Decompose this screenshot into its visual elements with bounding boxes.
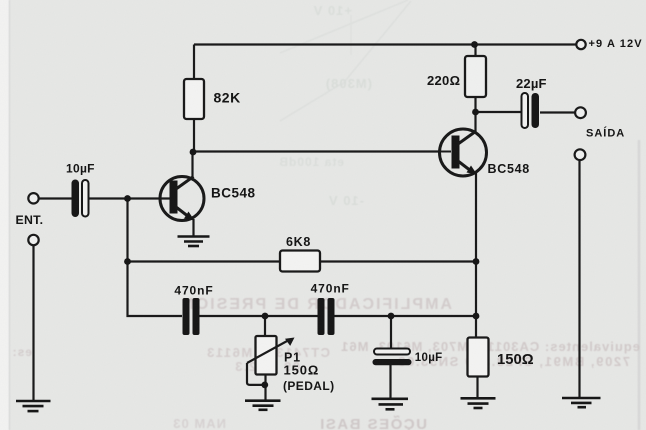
page crease	[9, 0, 11, 430]
capacitor 470nF no2 plates	[318, 298, 325, 335]
wire 10uF drop	[390, 316, 392, 350]
wire left vertical branch	[128, 199, 183, 317]
terminal +9V	[576, 40, 585, 49]
capacitor 10uF bottom: hollow plate	[374, 349, 410, 355]
wire Q1 emitter down	[192, 219, 194, 236]
wire 22uF to SAIDA	[540, 111, 575, 113]
node pot wiper	[261, 382, 268, 389]
wire 10uF to ground	[389, 365, 391, 398]
capacitor 10uF input: solid plate	[72, 180, 80, 218]
wire right ground column	[578, 160, 580, 398]
node 6K8 right	[473, 258, 480, 265]
capacitor 10uF bottom: solid plate	[373, 359, 412, 365]
ground Q1 emitter	[178, 237, 210, 247]
terminal output ground	[575, 149, 586, 160]
node cap1 cap2	[262, 313, 269, 320]
wire input terminal to cap	[38, 197, 73, 199]
bleedthrough vline	[350, 15, 352, 55]
node input base	[124, 195, 131, 202]
node 6K8 left	[124, 258, 131, 265]
right page-edge shade	[638, 140, 641, 430]
wire 82K bottom to node	[193, 119, 195, 152]
ground ENT	[16, 401, 51, 411]
resistor 150 ohm	[468, 338, 489, 377]
node emitter bottom	[473, 313, 480, 320]
capacitor 10uF input: hollow plate	[82, 180, 89, 217]
Q2 base wire into circle	[441, 151, 451, 153]
capacitor 470nF no1 plates	[183, 298, 190, 335]
node 10uF top	[388, 313, 395, 320]
wire 220R top	[474, 45, 476, 57]
terminal ENT upper	[28, 193, 38, 203]
wire 220R bottom node	[474, 97, 476, 112]
wire pot bottom to ground	[264, 371, 266, 400]
wire node to Q2 base	[193, 150, 441, 152]
resistor R 82K	[184, 79, 204, 119]
wire cap1 to cap2	[199, 315, 318, 317]
wire Q1 collector	[191, 152, 193, 177]
terminal SAIDA	[575, 107, 586, 118]
wire ENT lower to ground	[32, 245, 34, 401]
wire Q2 collector	[474, 112, 476, 133]
transistor Q1 BC548	[160, 177, 204, 221]
wire Q2 emitter column	[475, 172, 477, 338]
resistor 6K8	[280, 251, 320, 272]
wire pot top	[264, 316, 266, 337]
capacitor 22uF: solid plate	[532, 93, 540, 128]
wire node to 22uF	[476, 111, 522, 113]
wire cap to Q1 base	[87, 197, 171, 199]
ground 150 ohm	[461, 398, 496, 408]
ground 10uF bottom	[372, 399, 409, 410]
node rail 220R	[471, 41, 478, 48]
potentiometer P1 body	[256, 336, 277, 375]
wire rail corner down to 82K	[193, 45, 195, 80]
wire 6K8 to emitter column	[320, 260, 476, 262]
wire 150R to ground	[476, 376, 478, 398]
resistor R 220 ohm	[465, 56, 486, 97]
bleedthrough diag lines	[280, 0, 411, 121]
capacitor 22uF: hollow plate	[522, 93, 529, 128]
wire node to 6K8	[128, 260, 281, 262]
terminal ENT lower	[28, 235, 38, 245]
transistor Q2 BC548	[440, 129, 487, 176]
ground pot	[245, 401, 281, 410]
potentiometer arrow	[247, 338, 295, 385]
wire cap2 to right column	[334, 315, 477, 317]
node 220R 22uF	[472, 109, 479, 116]
wire top rail	[194, 43, 577, 45]
node 82K bottom	[190, 149, 197, 156]
ground right column	[562, 398, 601, 407]
